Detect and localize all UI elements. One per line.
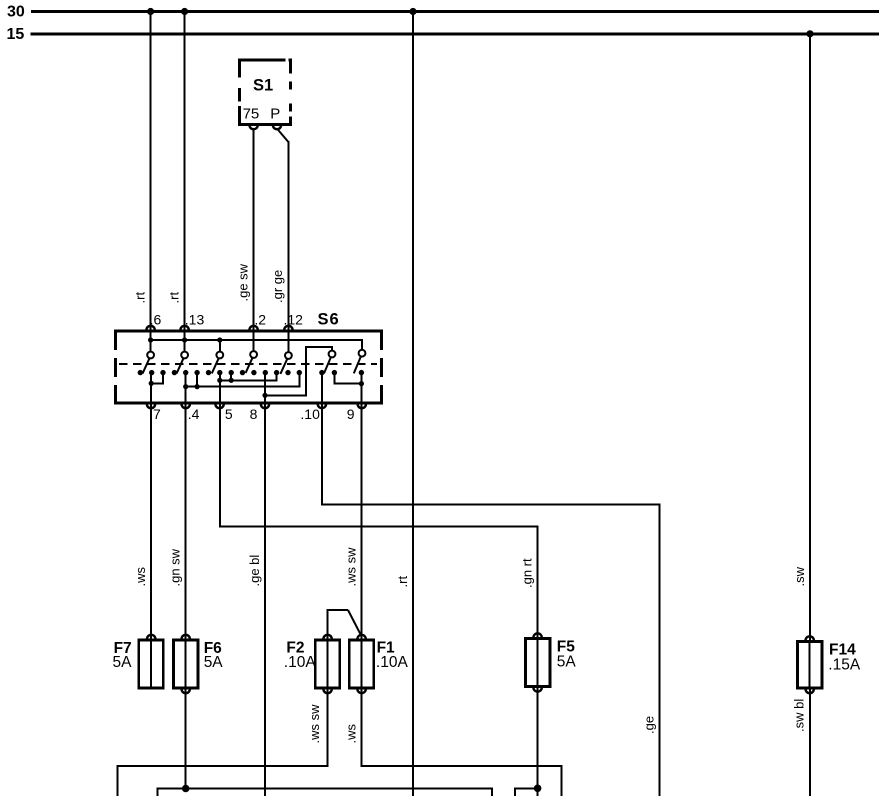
junction dot contact197 drop (195, 384, 200, 389)
svg-text:.sw: .sw (792, 566, 807, 586)
switch1 blade (143, 358, 150, 373)
svg-text:.gn sw: .gn sw (167, 548, 182, 586)
wire ws: S6 pin7 to fuse F7 (150, 403, 152, 640)
junction dot rail/switch3 (217, 337, 222, 342)
wire gr ge: S1 pinP diagonal then down to S6 pin12 (277, 129, 288, 142)
wire contact to pin7 (150, 373, 152, 403)
svg-text:.ws: .ws (343, 724, 358, 744)
S6 pin 7 terminal arc (147, 404, 155, 408)
fuse F2 body (315, 640, 340, 688)
fuse F6 element wire (185, 640, 187, 688)
junction dot F5 wire bottom (534, 785, 542, 793)
svg-text:.13: .13 (185, 312, 205, 328)
fuse F5 bottom terminal arc (533, 688, 541, 692)
switch10 contact circle (329, 351, 336, 358)
fuse F5 top terminal arc (533, 633, 541, 637)
svg-text:.10A: .10A (284, 654, 317, 671)
switch1 contact circle (147, 352, 154, 359)
fuse F14 top terminal arc (806, 636, 814, 640)
svg-text:.15A: .15A (828, 657, 861, 674)
switch10 blade (324, 357, 331, 373)
svg-text:.ws sw: .ws sw (307, 704, 322, 744)
svg-text:.gn rt: .gn rt (519, 558, 534, 588)
svg-text:30: 30 (7, 4, 25, 21)
svg-text:.gr ge: .gr ge (270, 270, 285, 303)
ignition switch S1 (dashed box) (238, 59, 292, 126)
junction dot bus30/wire rt (409, 8, 416, 15)
fuse F2 element wire (327, 640, 329, 688)
wire sw bl: fuse F5 bottom down off page (537, 688, 539, 796)
switch5 contact circle (285, 352, 292, 359)
wire contact to pin8 (264, 373, 266, 403)
svg-text:S1: S1 (253, 77, 273, 95)
S6 pin 13 terminal arc (180, 326, 188, 330)
fuse F2 top terminal arc (323, 635, 331, 639)
wire bridge fuse F2 top to F1 top (328, 610, 348, 640)
fuse F7 element wire (150, 640, 152, 688)
switch4 blade (246, 358, 253, 373)
switch3 blade (212, 358, 219, 373)
junction dot bus30/wire rt pin13 (181, 8, 188, 15)
junction dot pin9 branch (359, 381, 364, 386)
wire ge bl: S6 pin8 down full page (264, 403, 266, 796)
fuse F6 body (174, 640, 199, 688)
wire bottom rail with end drops (157, 789, 492, 796)
bus 30 (31, 10, 879, 13)
wire pin2 to switch4 contact (253, 331, 255, 351)
svg-text:P: P (270, 106, 280, 123)
wire sw bl: fuse F14 bottom down off page (809, 689, 811, 796)
bus 15 (31, 32, 879, 35)
svg-text:7: 7 (153, 406, 161, 422)
wire branch pin5 to contacts 231/276 (220, 373, 277, 381)
S6 pin 5 terminal arc (215, 404, 223, 408)
S6 pin 2 terminal arc (249, 326, 257, 330)
S6 mechanical coupling dashed line (119, 363, 377, 365)
svg-text:5A: 5A (113, 654, 133, 671)
S6 pin 4 terminal arc (182, 404, 190, 408)
fuse F1 body (349, 640, 374, 688)
fuse F1 element wire (361, 640, 363, 688)
switch9 blade (354, 357, 361, 374)
svg-text:.rt: .rt (395, 576, 410, 588)
svg-text:.rt: .rt (166, 292, 181, 304)
svg-text:.ge bl: .ge bl (247, 555, 262, 587)
wire contact 163 to pin7 branch (151, 373, 163, 384)
svg-text:.6: .6 (150, 312, 162, 328)
svg-text:9: 9 (347, 406, 355, 422)
S6 box right edge (dashed) (380, 331, 383, 403)
fuse F6 bottom terminal arc (182, 689, 190, 693)
junction dot F6 wire / bottom rail (182, 785, 190, 793)
svg-text:.rt: .rt (132, 292, 147, 304)
wire ws sw: fuse F2 bottom left-down off page (117, 689, 327, 796)
junction dot bus30/wire rt pin6 (147, 8, 154, 15)
wire ge sw: S1 pin75 to S6 pin2 (253, 129, 255, 331)
fuse F14 body (798, 642, 823, 689)
S6 box bottom edge (114, 402, 383, 405)
wire sw: bus15 down to fuse F14 (809, 34, 811, 641)
svg-text:.10: .10 (300, 406, 320, 422)
wire S6 pin5 right-down to fuse F5 (220, 403, 538, 639)
junction dot pin4 branch (183, 384, 188, 389)
svg-text:.ge: .ge (641, 716, 656, 734)
S6 pin 6 terminal arc (146, 326, 154, 330)
fuse F14 bottom terminal arc (806, 689, 814, 693)
switch2 contact circle (181, 352, 188, 359)
wire contact to pin4 (185, 373, 187, 403)
S6 pin 12 terminal arc (284, 326, 292, 330)
svg-text:5: 5 (225, 406, 233, 422)
wire contact334 to pin9 wire (334, 373, 361, 384)
fuse F5 element wire (537, 639, 539, 687)
junction dot rail/pin6 (148, 337, 153, 342)
fuse F2 bottom terminal arc (323, 689, 331, 693)
fuse F1 top terminal arc (357, 635, 365, 639)
wire contact to pin9 (360, 373, 362, 403)
wire branch pin4 to contacts 197/299 (186, 373, 300, 387)
wire contact to pin10 (321, 373, 323, 403)
S1 pin 75 terminal arc (249, 125, 257, 129)
wire rt: bus30 to S6 pin13 (184, 12, 186, 332)
light switch S6 box top edge (114, 330, 383, 333)
wire branch pin8 to switch10 contact (265, 347, 332, 395)
svg-text:S6: S6 (318, 311, 340, 329)
svg-text:.12: .12 (284, 312, 304, 328)
svg-text:.10A: .10A (376, 654, 409, 671)
wire ws sw: S6 pin9 to fuse F1 (361, 403, 363, 640)
junction dot pin8 branch (262, 393, 267, 398)
wire contact to pin5 (219, 373, 221, 403)
wire ws: fuse F1 bottom right-down off page (362, 689, 562, 796)
wire rail to switch3 contact (219, 340, 221, 352)
fuse F7 body (139, 640, 164, 688)
fuse F5 body (525, 639, 550, 687)
svg-text:.sw bl: .sw bl (791, 699, 806, 732)
fuse F7 top terminal arc (147, 635, 155, 639)
S6 pin 10 terminal arc (318, 404, 326, 408)
svg-text:.ws: .ws (133, 567, 148, 587)
svg-text:15: 15 (7, 26, 25, 43)
switch9 contact circle (359, 350, 366, 357)
switch5 blade (280, 359, 287, 374)
switch3 contact circle (216, 352, 223, 359)
svg-text:.ws sw: .ws sw (343, 547, 358, 587)
wire pin12 to switch5 contact (287, 331, 289, 352)
wire branch from F5 wire left-down off page (515, 788, 538, 796)
S6 pin 8 terminal arc (261, 404, 269, 408)
fuse F6 top terminal arc (182, 635, 190, 639)
svg-text:5A: 5A (557, 654, 577, 671)
wire from fuse F6 bottom down (185, 689, 187, 789)
svg-text:75: 75 (243, 106, 260, 123)
svg-text:8: 8 (250, 406, 258, 422)
wire pin6 to switch1 contact (150, 331, 152, 352)
wire pin13 to switch2 contact (184, 331, 186, 352)
wire rt: bus30 down full page (412, 12, 414, 796)
S1 pin P terminal arc (273, 125, 281, 129)
wire contact197 drop (196, 373, 198, 387)
svg-text:.4: .4 (188, 406, 200, 422)
svg-text:.2: .2 (254, 312, 266, 328)
wire rt: bus30 to S6 pin6 (150, 12, 152, 332)
S6 internal rail from pin6 to switch-9 contact (151, 340, 362, 350)
fuse F1 bottom terminal arc (357, 689, 365, 693)
S6 stationary contact dot row (138, 370, 364, 375)
fuse F14 element wire (809, 642, 811, 689)
wire S6 pin10 right-down (ge) (322, 403, 660, 796)
svg-text:.ge sw: .ge sw (236, 263, 251, 301)
junction dot contact231 drop (229, 378, 234, 383)
junction dot pin5 branch (217, 378, 222, 383)
junction dot pin7 branch (149, 381, 154, 386)
S6 box left edge (dashed) (114, 331, 117, 403)
S6 pin 9 terminal arc (358, 404, 366, 408)
wire contact231 drop (230, 373, 232, 381)
switch4 contact circle (250, 351, 257, 358)
junction dot bus15/wire F14 (806, 30, 813, 37)
svg-text:5A: 5A (204, 654, 224, 671)
wire gn sw: S6 pin4 to fuse F6 (185, 403, 187, 640)
switch2 blade (177, 358, 184, 373)
junction dot rail/pin13 (182, 337, 187, 342)
